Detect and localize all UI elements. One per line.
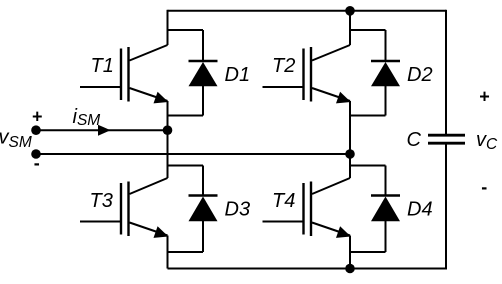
svg-text:T3: T3 [90, 190, 113, 212]
wire D4 top branch [350, 165, 386, 167]
svg-text:vSM: vSM [0, 127, 32, 151]
wire T2 emitter diagonal [312, 88, 350, 101]
wire input minus line [36, 153, 350, 155]
transistor T2 gate bar [302, 49, 304, 101]
iSM current arrowhead [98, 125, 111, 136]
wire T1 emitter diagonal [130, 88, 168, 101]
wire top rail [168, 10, 447, 12]
wire T1 gate lead [80, 86, 121, 88]
wire D3 top branch [168, 165, 204, 167]
diode D4 triangle [371, 197, 400, 222]
node input minus terminal [31, 149, 41, 159]
wire input plus line [36, 129, 168, 131]
T3 emitter arrowhead [154, 226, 169, 238]
transistor T3 body bar [127, 182, 129, 237]
wire D1 bottom lead [202, 85, 204, 116]
transistor T1 body bar [127, 47, 129, 102]
wire T4 gate lead [263, 221, 304, 223]
wire T3 gate lead [80, 221, 121, 223]
svg-text:-: - [34, 153, 40, 173]
svg-text:+: + [479, 87, 490, 107]
node input plus terminal [31, 125, 41, 135]
wire D3 bottom branch [168, 251, 204, 253]
wire T4 emitter stub [349, 236, 351, 269]
diode D2 triangle [371, 62, 400, 86]
svg-text:T4: T4 [272, 190, 295, 212]
node top junction [345, 6, 355, 16]
wire D3 top lead [202, 166, 204, 196]
T1 emitter arrowhead [154, 92, 169, 104]
wire T1 emitter stub [167, 101, 169, 131]
wire D4 top lead [385, 166, 387, 196]
wire D2 top lead [385, 30, 387, 61]
wire D1 top branch [168, 29, 204, 31]
diode D1 triangle [189, 62, 218, 86]
svg-text:C: C [407, 129, 422, 151]
svg-text:+: + [32, 107, 43, 127]
svg-text:D4: D4 [407, 199, 433, 221]
wire T2 gate lead [263, 86, 304, 88]
wire T4 emitter diagonal [312, 223, 350, 236]
svg-text:T2: T2 [272, 55, 295, 77]
wire D2 bottom lead [385, 85, 387, 116]
wire D1 bottom branch [168, 115, 204, 117]
wire D1 top lead [202, 30, 204, 61]
svg-text:D2: D2 [407, 64, 433, 86]
svg-text:vC: vC [476, 129, 498, 153]
transistor T4 body bar [310, 182, 312, 237]
transistor T4 gate bar [302, 183, 304, 235]
wire D2 bottom branch [350, 115, 386, 117]
wire T3 emitter diagonal [130, 223, 168, 236]
transistor T3 gate bar [120, 183, 122, 235]
svg-text:D3: D3 [225, 199, 251, 221]
wire D3 bottom lead [202, 220, 204, 253]
capacitor C bottom plate [428, 142, 465, 145]
T2 emitter arrowhead [336, 92, 351, 104]
wire left leg mid vertical [167, 130, 169, 178]
wire D4 bottom lead [385, 220, 387, 253]
diode D2 cathode bar [371, 60, 400, 62]
wire T1 collector diagonal [130, 45, 168, 61]
node left leg midpoint [163, 125, 173, 135]
wire T2 collector diagonal [312, 45, 350, 61]
wire right leg mid vertical [349, 154, 351, 178]
wire right rail lower [445, 145, 447, 270]
capacitor C top plate [428, 134, 465, 137]
wire T3 collector diagonal [130, 178, 168, 194]
wire T4 collector diagonal [312, 178, 350, 194]
T4 emitter arrowhead [336, 226, 351, 238]
wire D4 bottom branch [350, 251, 386, 253]
wire T2 emitter stub [349, 101, 351, 154]
wire D2 top branch [350, 29, 386, 31]
wire T3 emitter stub [167, 236, 169, 269]
transistor T2 body bar [310, 47, 312, 102]
wire T1 collector stub [167, 10, 169, 45]
node right leg midpoint [345, 149, 355, 159]
diode D4 cathode bar [371, 194, 400, 196]
transistor T1 gate bar [120, 49, 122, 101]
diode D3 triangle [189, 197, 218, 222]
wire right rail upper [445, 10, 447, 134]
node bottom junction [345, 264, 355, 274]
svg-text:T1: T1 [91, 55, 114, 77]
svg-text:-: - [481, 177, 487, 197]
svg-text:iSM: iSM [73, 106, 101, 129]
diode D1 cathode bar [189, 60, 218, 62]
svg-text:D1: D1 [225, 64, 251, 86]
diode D3 cathode bar [189, 194, 218, 196]
wire T2 collector stub [349, 11, 351, 46]
wire bottom rail [168, 268, 447, 270]
